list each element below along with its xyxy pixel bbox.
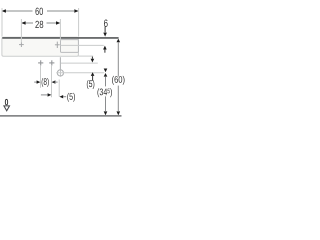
dim 6 label — [104, 20, 108, 27]
dim 60 line — [6, 10, 75, 12]
datum 0 label — [5, 99, 8, 105]
tap hole cross 1 — [19, 42, 24, 47]
dim 28 right arrow — [56, 21, 60, 25]
dim 60 right arrow — [74, 9, 78, 13]
background — [0, 0, 125, 125]
dim (8) left leader — [34, 81, 37, 83]
dim (5) column stem top — [91, 57, 93, 59]
pipe offset extension line — [58, 80, 60, 97]
drain circle vertical crosshair — [59, 69, 61, 77]
basin body — [2, 37, 79, 56]
dim (5) lower label — [67, 93, 75, 102]
dim (34.5) down arrow above line D — [104, 69, 108, 73]
dim (34.5) up arrow below line D — [104, 73, 108, 77]
dim (60) stem upper — [117, 42, 119, 76]
dim 28 left extension line — [20, 19, 22, 42]
dim (8) left-pointing arrow — [52, 80, 56, 83]
tap hole cross 2 — [55, 42, 60, 48]
dim (60) label — [112, 76, 124, 85]
trap box — [61, 40, 79, 53]
wall fixing cross 2 — [49, 60, 54, 65]
drain pipe — [59, 57, 61, 69]
dim 6 upper stem — [104, 27, 106, 33]
dim (34.5) label — [97, 88, 112, 97]
dim (8) right-pointing arrow — [37, 80, 41, 83]
fixing cross 2 extension line — [51, 66, 53, 98]
dim (34.5) bottom down arrow — [104, 111, 108, 115]
dim 60 left extension line — [1, 8, 3, 37]
dim (5) column down arrow at line C — [91, 59, 95, 63]
dim (60) stem lower — [117, 86, 119, 111]
dim 6 lower stem — [104, 49, 106, 52]
dim (5) lower right-pointing arrow — [48, 93, 52, 96]
basin top edge with right extension — [2, 37, 118, 39]
dim (60) bottom down arrow — [117, 111, 121, 115]
dim (34.5) stem lower — [105, 96, 107, 111]
drain trap circle — [57, 70, 63, 76]
dim (5) upper label — [87, 80, 95, 89]
dim (60) top up arrow — [117, 39, 121, 43]
dim (8) right leader — [54, 81, 57, 83]
dim 28 right extension line — [59, 19, 61, 41]
fixing cross 1 extension line — [40, 66, 42, 88]
line B rim-underside level — [61, 44, 104, 46]
dim (5) column stem below line D — [92, 76, 94, 81]
datum triangle — [4, 106, 10, 111]
dim (5) lower left leader — [41, 94, 48, 96]
dim 60 label — [35, 8, 43, 15]
dim 28 left arrow — [21, 21, 25, 25]
dim 6 up arrow — [103, 46, 107, 50]
dim 28 line — [25, 22, 58, 24]
dim (8) label — [42, 78, 49, 87]
floor line — [0, 115, 122, 117]
dim 60 right extension line — [78, 8, 80, 37]
basin bottom edge right extension — [78, 55, 93, 57]
dim (5) lower left-pointing arrow — [59, 95, 63, 98]
line D outlet axis level — [56, 72, 104, 74]
dim 6 down arrow — [103, 33, 107, 37]
line C outlet upper level — [61, 62, 98, 64]
dim 60 left arrow — [2, 9, 6, 13]
wall fixing cross 1 — [38, 60, 43, 65]
dim 28 label — [35, 21, 43, 28]
dim (5) lower right leader — [63, 96, 66, 98]
dim (5) column up arrow at line D — [91, 72, 95, 76]
dim (34.5) stem upper — [105, 76, 107, 86]
